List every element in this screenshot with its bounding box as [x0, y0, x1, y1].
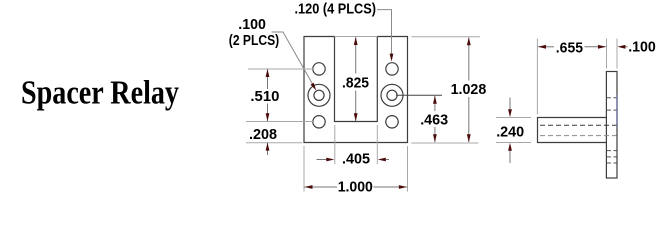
dim .655 extension left: [536, 39, 538, 115]
dim .463 line: [433, 96, 437, 143]
dim .240 extension top: [496, 117, 531, 119]
dim .405 arrows: [317, 158, 390, 162]
slot top extension line: [335, 36, 378, 38]
dim .405 extension right: [376, 125, 378, 164]
hole bottom-right .120: [386, 116, 398, 128]
side view plate: [606, 72, 617, 179]
svg-text:.655: .655: [556, 41, 583, 57]
side hidden line top hole lower: [607, 109, 617, 111]
side hidden line top hole upper: [607, 97, 617, 99]
hole top-left .120: [313, 63, 325, 75]
svg-text:1.000: 1.000: [338, 180, 373, 196]
dim .655 extension mid: [606, 39, 608, 69]
dim .655 line: [538, 45, 606, 49]
dim 1.028 extension bottom: [411, 142, 478, 144]
dim .510 line: [266, 69, 270, 121]
dim 1.028 extension top: [411, 36, 480, 38]
svg-text:.463: .463: [420, 113, 448, 129]
side hidden line bar hole top: [540, 124, 617, 126]
dim .240 extension bottom: [496, 142, 531, 144]
hole bottom-left .120: [313, 116, 325, 128]
callout .120 leader: [377, 10, 393, 62]
dim .510 extension top: [248, 68, 314, 70]
dim .240 arrows: [508, 98, 512, 164]
svg-text:Spacer Relay: Spacer Relay: [21, 74, 179, 111]
hole mid-right .100: [387, 90, 397, 100]
dim .100 extension right: [616, 39, 618, 69]
side view plate right edge blue tint: [616, 95, 618, 127]
dim 1.028 line: [467, 37, 471, 142]
side hidden line bottom hole upper: [607, 150, 617, 152]
dim .100 side arrow: [617, 45, 627, 49]
svg-text:.510: .510: [250, 89, 279, 105]
side hidden line bar hole bottom: [540, 135, 617, 137]
svg-text:.208: .208: [249, 127, 277, 143]
hole mid-left .100: [314, 90, 324, 100]
hole mid-right boss: [381, 84, 403, 106]
side view bar: [538, 118, 607, 143]
side hidden line bottom hole lower: [607, 162, 617, 164]
svg-text:(2 PLCS): (2 PLCS): [229, 33, 280, 49]
hole top-right .120: [386, 63, 398, 75]
dim .405 extension left: [334, 125, 336, 164]
side hidden line bottom hole center: [607, 156, 617, 158]
svg-text:.405: .405: [342, 152, 370, 168]
front view plate outline: [304, 37, 408, 143]
svg-text:1.028: 1.028: [451, 82, 487, 98]
dim 1.000 extension left: [303, 146, 305, 192]
svg-text:.240: .240: [496, 125, 524, 141]
svg-text:.825: .825: [342, 76, 369, 92]
dim .825 line: [354, 37, 358, 121]
callout .100 leader: [272, 32, 317, 91]
svg-text:.100: .100: [628, 40, 656, 56]
hole mid-left boss: [308, 84, 330, 106]
dim .208 extension bottom: [246, 142, 302, 144]
dim .208 arrow: [266, 143, 270, 155]
dim .510 extension bottom: [246, 121, 314, 123]
dim 1.000 extension right: [407, 146, 409, 192]
dim 1.000 line: [305, 185, 407, 189]
svg-text:.120 (4 PLCS): .120 (4 PLCS): [295, 2, 377, 18]
dim .463 leader from hole: [396, 94, 442, 96]
svg-text:.100: .100: [238, 17, 266, 33]
